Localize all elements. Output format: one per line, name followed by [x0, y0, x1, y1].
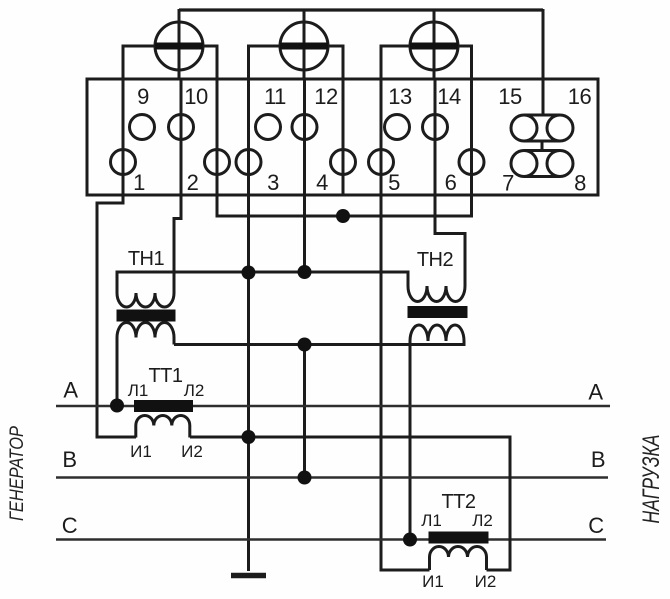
svg-text:16: 16 [568, 84, 592, 109]
svg-text:8: 8 [574, 171, 586, 196]
jumper 7-8 [511, 151, 573, 177]
wire TT1 I2 to TT2 I2 [190, 437, 510, 570]
svg-text:7: 7 [502, 171, 514, 196]
transformer TH2 primary winding [408, 286, 465, 302]
wire terminal 12 down to node [303, 195, 306, 272]
wire terminal column 6 [470, 79, 473, 195]
transformer TT2 primary bar [429, 532, 489, 544]
wire jumper feed vertical [542, 9, 545, 116]
svg-text:И2: И2 [181, 442, 203, 461]
transformer TH1 core [117, 310, 176, 322]
terminal 9 [130, 115, 155, 140]
meter element W1 (circle with bar) [155, 22, 203, 70]
svg-text:В: В [62, 447, 76, 472]
wire terminal 1 to TT1 I1 [97, 195, 136, 437]
wire terminal 10 to TH1 primary right [174, 195, 181, 293]
wire terminal column 14 [434, 79, 437, 195]
wire terminal column 3 [247, 79, 250, 195]
svg-text:Л2: Л2 [472, 511, 493, 530]
svg-text:4: 4 [316, 170, 328, 195]
wire terminal 3 down to ground [247, 195, 250, 571]
svg-text:ТТ1: ТТ1 [148, 365, 182, 387]
terminal 12 [292, 115, 317, 140]
terminal 2 [205, 150, 230, 175]
svg-text:НАГРУЗКА: НАГРУЗКА [638, 435, 665, 524]
meter element W2 (circle with bar) [280, 22, 328, 70]
transformer TH1 secondary winding [117, 323, 174, 406]
svg-text:С: С [588, 513, 604, 538]
svg-text:ТТ2: ТТ2 [441, 491, 475, 513]
svg-text:В: В [591, 447, 605, 472]
wire node B vertical [303, 345, 306, 478]
wire terminal column 2 [216, 79, 219, 195]
terminal 5 [369, 150, 394, 175]
svg-text:С: С [62, 513, 78, 538]
terminal 13 [385, 115, 410, 140]
wire TH primaries link (node line y=272) [117, 272, 408, 293]
transformer TT1 primary bar [134, 400, 193, 412]
wire terminal column 12 [303, 79, 306, 195]
jumper 15-16 [511, 115, 573, 141]
terminal 11 [256, 115, 281, 140]
svg-text:ТН1: ТН1 [128, 248, 165, 270]
wire meter3 feed vertical [433, 9, 436, 79]
terminal box [87, 79, 598, 195]
line C [56, 538, 606, 540]
svg-text:9: 9 [137, 84, 149, 109]
node dot secondaries x304 [298, 338, 312, 352]
transformer TT2 secondary winding [430, 547, 487, 571]
svg-text:6: 6 [445, 170, 457, 195]
wire TH2 secondary left to line C [409, 341, 412, 540]
svg-text:13: 13 [388, 84, 412, 109]
svg-text:А: А [588, 380, 603, 405]
terminal 4 [331, 150, 356, 175]
node dot line B x304 [298, 471, 312, 485]
svg-text:Л2: Л2 [184, 381, 205, 400]
svg-text:10: 10 [184, 84, 208, 109]
svg-text:Л1: Л1 [128, 381, 149, 400]
wire terminal column 4 [342, 79, 345, 195]
svg-text:И1: И1 [130, 442, 152, 461]
ground [231, 573, 266, 579]
wire jumper connector [541, 141, 544, 151]
wire terminal 2 to terminal 6 (voltage common) [217, 195, 472, 216]
node dot line C TH2 [403, 533, 417, 547]
transformer TH2 core [408, 306, 468, 318]
wire terminal column 10 [180, 79, 183, 195]
wire terminal 14 to TH2 primary right [435, 195, 465, 286]
terminal 6 [459, 150, 484, 175]
svg-text:2: 2 [187, 170, 199, 195]
transformer TH1 primary winding [117, 293, 174, 307]
terminal 14 [423, 115, 448, 140]
transformer TH2 secondary winding [410, 325, 464, 341]
wire terminal column 1 [122, 79, 125, 195]
node dot primaries x248 [242, 266, 256, 280]
node dot line A TH1 [110, 399, 124, 413]
svg-text:12: 12 [314, 84, 338, 109]
wire meter2 feed vertical [303, 9, 306, 79]
node dot terminal 4 junction [336, 209, 350, 223]
wire meter3 right lead to terminal 6 [458, 46, 472, 79]
wire top bus [179, 8, 543, 11]
svg-text:14: 14 [437, 84, 461, 109]
wire terminal 5 to TT2 I1 [381, 195, 430, 570]
terminal 3 [236, 150, 261, 175]
wire terminal column 5 [380, 79, 383, 195]
terminal 1 [111, 150, 136, 175]
wire meter1 left lead to terminal 1 [123, 46, 155, 79]
svg-text:15: 15 [498, 84, 522, 109]
svg-text:5: 5 [388, 170, 400, 195]
svg-text:И2: И2 [475, 572, 497, 591]
svg-text:3: 3 [267, 170, 279, 195]
line A [56, 405, 610, 407]
wire meter3 left lead to terminal 5 [381, 46, 410, 79]
node dot primaries x304 [298, 265, 312, 279]
wire meter1 right lead to terminal 2 [203, 46, 217, 79]
svg-text:Л1: Л1 [421, 511, 442, 530]
svg-text:А: А [63, 378, 78, 403]
svg-text:1: 1 [133, 170, 145, 195]
wire TH secondaries link (y=344.5) [174, 341, 464, 345]
wire meter1 feed vertical [178, 9, 181, 79]
svg-text:ТН2: ТН2 [417, 249, 454, 271]
transformer TT1 secondary winding [136, 416, 190, 438]
svg-text:11: 11 [264, 84, 286, 109]
terminal 10 [169, 115, 194, 140]
meter element W3 (circle with bar) [410, 22, 458, 70]
svg-text:И1: И1 [422, 572, 444, 591]
svg-text:ГЕНЕРАТОР: ГЕНЕРАТОР [7, 426, 28, 521]
wire meter2 right lead to terminal 4 [328, 46, 343, 79]
node dot I2 line x248 [242, 430, 256, 444]
wire meter2 left lead to terminal 3 [249, 46, 281, 79]
line B [56, 476, 608, 478]
